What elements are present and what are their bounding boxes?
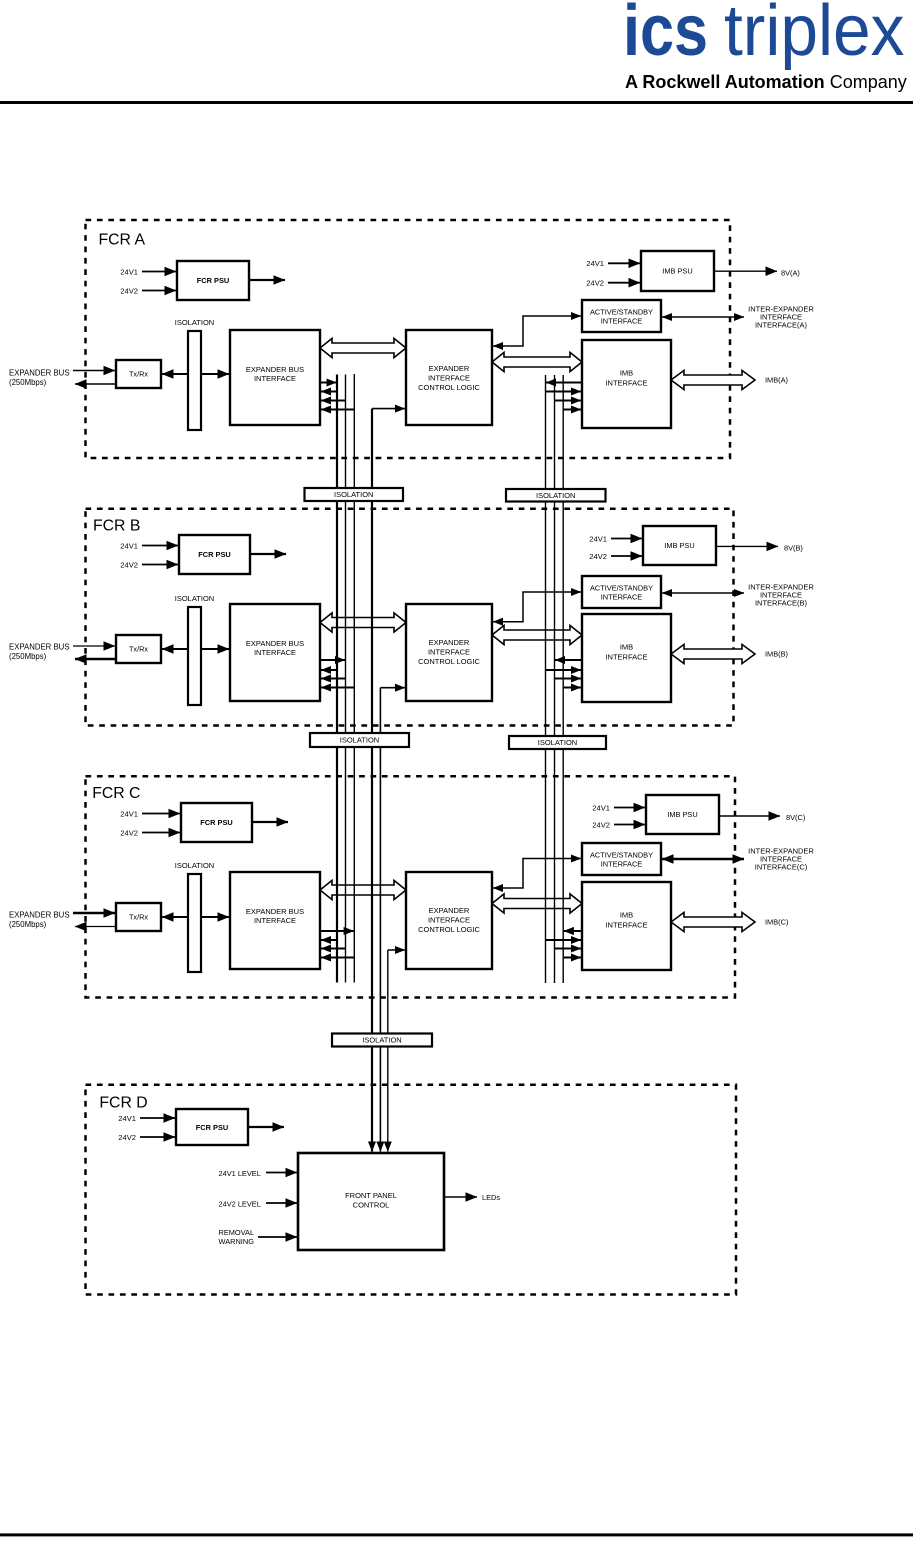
wire EXPANDER BUS INTERFACE output to bus (FCR C) bbox=[320, 930, 354, 932]
IMB(C) external bus arrow bbox=[671, 912, 755, 931]
wire expander bus input to Tx/Rx (FCR A) bbox=[73, 370, 115, 372]
svg-text:FRONT PANELCONTROL: FRONT PANELCONTROL bbox=[345, 1191, 397, 1210]
svg-text:IMB(B): IMB(B) bbox=[765, 650, 788, 659]
svg-text:24V1 LEVEL: 24V1 LEVEL bbox=[219, 1169, 261, 1178]
block EXPANDER BUS INTERFACE (FCR A) bbox=[230, 330, 320, 425]
block Tx/Rx (FCR A) bbox=[116, 360, 161, 388]
footer rule bbox=[0, 1533, 913, 1536]
bus line R3 IMB channel C bbox=[562, 375, 564, 983]
wire 24V2 LEVEL to FRONT PANEL CONTROL bbox=[266, 1202, 297, 1204]
wire 24V2 to FCR PSU (FCR C) bbox=[142, 832, 180, 834]
wire Tx/Rx output to expander bus (FCR A) bbox=[75, 383, 116, 385]
wire FRONT PANEL CONTROL output to LEDs bbox=[444, 1196, 477, 1198]
wire Tx/Rx output to expander bus (FCR B) bbox=[75, 658, 116, 661]
svg-text:24V1: 24V1 bbox=[118, 1114, 136, 1123]
block EXPANDER INTERFACE CONTROL LOGIC (FCR B) bbox=[406, 604, 492, 701]
FCR A dashed frame bbox=[86, 220, 731, 458]
wire IMB PSU output 8V(B) bbox=[716, 545, 778, 547]
bus line R2 IMB channel B bbox=[554, 375, 556, 983]
svg-text:ISOLATION: ISOLATION bbox=[175, 594, 214, 603]
svg-text:EXPANDER BUSINTERFACE: EXPANDER BUSINTERFACE bbox=[246, 365, 304, 383]
wire FCR PSU output (FCR B) bbox=[250, 553, 286, 555]
svg-text:8V(C): 8V(C) bbox=[786, 813, 805, 822]
IMB(B) external bus arrow bbox=[671, 644, 755, 663]
svg-text:24V2: 24V2 bbox=[118, 1133, 136, 1142]
wire 24V2 to IMB PSU (FCR A) bbox=[608, 282, 640, 284]
block FCR PSU (FCR D) bbox=[176, 1109, 248, 1145]
bus line L2 expander bus channel B bbox=[345, 375, 347, 983]
wire bus L2 input to EXPANDER BUS INTERFACE (FCR C) bbox=[321, 948, 346, 950]
svg-text:ISOLATION: ISOLATION bbox=[175, 861, 214, 870]
bidirectional bus arrow EXPANDER BUS INTERFACE to CONTROL LOGIC (FCR A) bbox=[320, 338, 406, 357]
wire bus L2 input to EXPANDER BUS INTERFACE (FCR A) bbox=[321, 400, 346, 402]
wire bus L3 input to EXPANDER BUS INTERFACE (FCR C) bbox=[321, 957, 354, 959]
svg-text:24V1: 24V1 bbox=[586, 259, 604, 268]
svg-text:8V(B): 8V(B) bbox=[784, 544, 803, 553]
block FCR PSU (FCR C) bbox=[181, 803, 252, 842]
svg-text:IMB PSU: IMB PSU bbox=[664, 541, 694, 550]
wire expander bus input to Tx/Rx (FCR B) bbox=[73, 645, 115, 647]
wire EXPANDER BUS INTERFACE output to bus (FCR B) bbox=[320, 659, 345, 661]
wire IMB PSU output 8V(A) bbox=[714, 270, 777, 272]
wire bus L1 input to EXPANDER BUS INTERFACE (FCR C) bbox=[321, 939, 337, 941]
block FCR PSU (FCR A) bbox=[177, 261, 249, 300]
block Tx/Rx (FCR C) bbox=[116, 903, 161, 931]
wire 24V2 to IMB PSU (FCR B) bbox=[611, 555, 642, 557]
wire 24V2 to IMB PSU (FCR C) bbox=[614, 824, 645, 826]
svg-text:24V1: 24V1 bbox=[589, 535, 607, 544]
block ACTIVE/STANDBY INTERFACE (FCR C) bbox=[582, 843, 661, 875]
block ACTIVE/STANDBY INTERFACE (FCR A) bbox=[582, 300, 661, 332]
bus line L1 expander bus channel A bbox=[336, 375, 338, 983]
FCR B dashed frame bbox=[86, 509, 734, 726]
svg-text:24V2: 24V2 bbox=[589, 552, 607, 561]
wire bus R1 input to IMB INTERFACE (FCR A) bbox=[546, 391, 582, 393]
svg-text:FCR A: FCR A bbox=[99, 231, 146, 248]
svg-text:FCR PSU: FCR PSU bbox=[200, 818, 232, 827]
wire bus L3 input to EXPANDER BUS INTERFACE (FCR A) bbox=[321, 409, 354, 411]
wire 24V1 to IMB PSU (FCR C) bbox=[614, 807, 645, 809]
svg-text:ISOLATION: ISOLATION bbox=[536, 491, 575, 500]
wire control bus stub into CONTROL LOGIC (FCR A) bbox=[372, 408, 405, 410]
isolation strip expander bus FCR B/C bbox=[310, 733, 409, 747]
IMB(A) external bus arrow bbox=[671, 370, 755, 389]
svg-text:Tx/Rx: Tx/Rx bbox=[129, 913, 148, 922]
wire Tx/Rx output to expander bus (FCR C) bbox=[75, 926, 116, 928]
svg-text:IMB(A): IMB(A) bbox=[765, 376, 788, 385]
wire IMB INTERFACE output to bus (FCR B) bbox=[555, 659, 582, 661]
wire bus L1 input to EXPANDER BUS INTERFACE (FCR B) bbox=[321, 669, 337, 671]
svg-text:Tx/Rx: Tx/Rx bbox=[129, 370, 148, 379]
wire 24V1 to IMB PSU (FCR B) bbox=[611, 538, 642, 540]
wire CONTROL LOGIC to ACTIVE/STANDBY INTERFACE (FCR B) bbox=[493, 592, 581, 622]
svg-text:24V1: 24V1 bbox=[120, 268, 138, 277]
block FCR PSU (FCR B) bbox=[179, 535, 250, 574]
svg-text:24V2: 24V2 bbox=[586, 279, 604, 288]
isolation strip IMB bus FCR B/C bbox=[509, 736, 606, 749]
wire 24V2 to FCR PSU (FCR A) bbox=[142, 290, 176, 292]
block FRONT PANEL CONTROL bbox=[298, 1153, 444, 1250]
block Tx/Rx (FCR B) bbox=[116, 635, 161, 663]
wire 24V1 LEVEL to FRONT PANEL CONTROL bbox=[266, 1172, 297, 1174]
wire 24V1 to IMB PSU (FCR A) bbox=[608, 262, 640, 264]
wire INTER-EXPANDER INTERFACE(C) bbox=[662, 858, 744, 860]
svg-text:ISOLATION: ISOLATION bbox=[538, 738, 577, 747]
header rule bbox=[0, 101, 913, 104]
wire REMOVAL WARNING to FRONT PANEL CONTROL bbox=[258, 1236, 297, 1238]
svg-text:24V2: 24V2 bbox=[120, 829, 138, 838]
svg-text:8V(A): 8V(A) bbox=[781, 269, 800, 278]
svg-text:24V1: 24V1 bbox=[120, 810, 138, 819]
FCR C dashed frame bbox=[86, 776, 736, 997]
wire CONTROL LOGIC to ACTIVE/STANDBY INTERFACE (FCR A) bbox=[493, 316, 581, 346]
wire 24V1 to FCR PSU (FCR C) bbox=[142, 813, 180, 815]
wire 24V2 to FCR PSU (FCR B) bbox=[142, 564, 178, 566]
control bus line from FCR A control logic to front panel bbox=[371, 409, 373, 1152]
block EXPANDER INTERFACE CONTROL LOGIC (FCR C) bbox=[406, 872, 492, 969]
wire bus R3 input to IMB INTERFACE (FCR B) bbox=[563, 687, 581, 689]
isolation strip expander bus FCR A/B bbox=[305, 488, 404, 501]
wire control bus stub into CONTROL LOGIC (FCR C) bbox=[388, 949, 405, 951]
wire FCR PSU output (FCR A) bbox=[249, 279, 285, 281]
svg-text:24V2: 24V2 bbox=[120, 561, 138, 570]
wire bus R2 input to IMB INTERFACE (FCR C) bbox=[555, 948, 582, 950]
svg-text:ISOLATION: ISOLATION bbox=[340, 736, 379, 745]
isolation barrier bar (FCR B) bbox=[188, 607, 201, 705]
bidirectional bus arrow CONTROL LOGIC to IMB INTERFACE (FCR C) bbox=[492, 894, 582, 913]
block IMB PSU (FCR B) bbox=[643, 526, 716, 565]
svg-text:REMOVALWARNING: REMOVALWARNING bbox=[219, 1228, 255, 1246]
svg-text:24V1: 24V1 bbox=[120, 542, 138, 551]
wire 24V1 to FCR PSU (FCR D) bbox=[140, 1117, 175, 1119]
wire FCR PSU output (FCR C) bbox=[252, 821, 288, 823]
wire isolation bar to Tx/Rx (FCR A) bbox=[162, 373, 188, 375]
isolation barrier bar (FCR C) bbox=[188, 874, 201, 972]
svg-text:FCR C: FCR C bbox=[92, 785, 140, 802]
svg-text:IMB PSU: IMB PSU bbox=[662, 267, 692, 276]
wire 24V1 to FCR PSU (FCR B) bbox=[142, 545, 178, 547]
svg-text:24V2 LEVEL: 24V2 LEVEL bbox=[219, 1200, 261, 1209]
wire bus R1 input to IMB INTERFACE (FCR B) bbox=[546, 669, 582, 671]
svg-text:Tx/Rx: Tx/Rx bbox=[129, 645, 148, 654]
wire isolation bar to EXPANDER BUS INTERFACE (FCR C) bbox=[201, 916, 229, 918]
block ACTIVE/STANDBY INTERFACE (FCR B) bbox=[582, 576, 661, 608]
bidirectional bus arrow CONTROL LOGIC to IMB INTERFACE (FCR A) bbox=[492, 352, 582, 371]
bus line L3 expander bus channel C bbox=[353, 374, 355, 983]
block IMB INTERFACE (FCR A) bbox=[582, 340, 671, 428]
svg-text:LEDs: LEDs bbox=[482, 1193, 500, 1202]
block IMB PSU (FCR C) bbox=[646, 795, 719, 834]
wire IMB INTERFACE output to bus (FCR A) bbox=[546, 382, 582, 384]
block IMB INTERFACE (FCR B) bbox=[582, 614, 671, 702]
isolation strip control bus FCR C/D bbox=[332, 1034, 432, 1047]
svg-text:ics: ics bbox=[623, 0, 708, 71]
svg-text:FCR PSU: FCR PSU bbox=[197, 276, 229, 285]
svg-text:ISOLATION: ISOLATION bbox=[334, 490, 373, 499]
wire bus R2 input to IMB INTERFACE (FCR A) bbox=[555, 400, 582, 402]
wire INTER-EXPANDER INTERFACE(A) bbox=[662, 316, 744, 318]
wire CONTROL LOGIC to ACTIVE/STANDBY INTERFACE (FCR C) bbox=[493, 859, 581, 889]
block EXPANDER BUS INTERFACE (FCR B) bbox=[230, 604, 320, 701]
wire isolation bar to EXPANDER BUS INTERFACE (FCR B) bbox=[201, 648, 229, 650]
bidirectional bus arrow CONTROL LOGIC to IMB INTERFACE (FCR B) bbox=[492, 625, 582, 644]
wire bus R3 input to IMB INTERFACE (FCR A) bbox=[563, 409, 581, 411]
wire isolation bar to EXPANDER BUS INTERFACE (FCR A) bbox=[201, 373, 229, 375]
isolation barrier bar (FCR A) bbox=[188, 331, 201, 430]
wire IMB INTERFACE output to bus (FCR C) bbox=[564, 930, 582, 932]
svg-text:EXPANDER BUSINTERFACE: EXPANDER BUSINTERFACE bbox=[246, 907, 304, 925]
control bus line from FCR B control logic to front panel bbox=[379, 688, 381, 1152]
svg-text:FCR D: FCR D bbox=[99, 1095, 147, 1112]
wire isolation bar to Tx/Rx (FCR C) bbox=[162, 916, 188, 918]
bus line R1 IMB channel A bbox=[545, 375, 547, 983]
wire control bus stub into CONTROL LOGIC (FCR B) bbox=[380, 687, 405, 689]
svg-text:EXPANDER BUSINTERFACE: EXPANDER BUSINTERFACE bbox=[246, 639, 304, 657]
svg-text:IMB(C): IMB(C) bbox=[765, 918, 788, 927]
svg-text:FCR B: FCR B bbox=[93, 518, 140, 535]
wire FCR PSU output (FCR D) bbox=[248, 1126, 284, 1128]
control bus line from FCR C control logic to front panel bbox=[387, 950, 389, 1152]
wire 24V1 to FCR PSU (FCR A) bbox=[142, 271, 176, 273]
svg-text:A Rockwell Automation Company: A Rockwell Automation Company bbox=[625, 72, 907, 92]
FCR D dashed frame bbox=[86, 1085, 737, 1295]
block IMB PSU (FCR A) bbox=[641, 251, 714, 291]
wire INTER-EXPANDER INTERFACE(B) bbox=[662, 592, 744, 594]
wire expander bus input to Tx/Rx (FCR C) bbox=[73, 912, 115, 914]
isolation strip IMB bus FCR A/B bbox=[506, 489, 606, 502]
svg-text:IMB PSU: IMB PSU bbox=[667, 810, 697, 819]
block EXPANDER INTERFACE CONTROL LOGIC (FCR A) bbox=[406, 330, 492, 425]
block IMB INTERFACE (FCR C) bbox=[582, 882, 671, 970]
svg-text:24V2: 24V2 bbox=[120, 287, 138, 296]
svg-text:ISOLATION: ISOLATION bbox=[362, 1036, 401, 1045]
wire 24V2 to FCR PSU (FCR D) bbox=[140, 1136, 175, 1138]
bidirectional bus arrow EXPANDER BUS INTERFACE to CONTROL LOGIC (FCR B) bbox=[320, 613, 406, 632]
wire isolation bar to Tx/Rx (FCR B) bbox=[162, 648, 188, 650]
wire bus L3 input to EXPANDER BUS INTERFACE (FCR B) bbox=[321, 687, 354, 689]
wire bus R1 input to IMB INTERFACE (FCR C) bbox=[546, 939, 582, 941]
wire bus L1 input to EXPANDER BUS INTERFACE (FCR A) bbox=[321, 391, 337, 393]
block EXPANDER BUS INTERFACE (FCR C) bbox=[230, 872, 320, 969]
wire bus R3 input to IMB INTERFACE (FCR C) bbox=[563, 957, 581, 959]
svg-text:FCR PSU: FCR PSU bbox=[198, 550, 230, 559]
wire bus R2 input to IMB INTERFACE (FCR B) bbox=[555, 678, 582, 680]
svg-text:24V1: 24V1 bbox=[592, 804, 610, 813]
wire IMB PSU output 8V(C) bbox=[719, 815, 780, 817]
svg-text:triplex: triplex bbox=[724, 0, 905, 70]
bidirectional bus arrow EXPANDER BUS INTERFACE to CONTROL LOGIC (FCR C) bbox=[320, 880, 406, 899]
svg-text:24V2: 24V2 bbox=[592, 821, 610, 830]
wire EXPANDER BUS INTERFACE output to bus (FCR A) bbox=[320, 382, 337, 384]
svg-text:ISOLATION: ISOLATION bbox=[175, 318, 214, 327]
wire bus L2 input to EXPANDER BUS INTERFACE (FCR B) bbox=[321, 678, 346, 680]
svg-text:FCR PSU: FCR PSU bbox=[196, 1123, 228, 1132]
